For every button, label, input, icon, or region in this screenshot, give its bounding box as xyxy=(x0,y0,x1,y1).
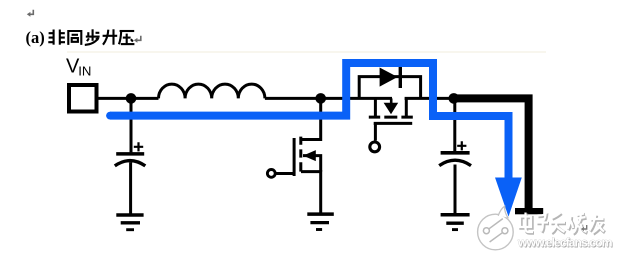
svg-text:www.elecfans.com: www.elecfans.com xyxy=(517,236,613,250)
svg-text:IN: IN xyxy=(78,64,91,79)
svg-text:(a): (a) xyxy=(26,28,45,47)
